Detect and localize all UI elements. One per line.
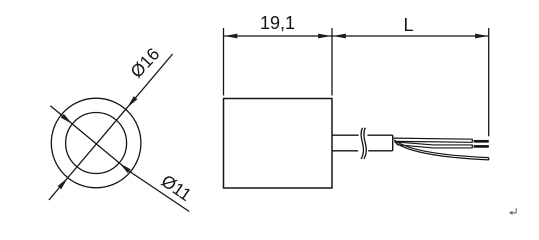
- dimension line Ø11 (diagonal upper-left to lower-right): [50, 106, 189, 212]
- arrowhead L left: [333, 34, 346, 39]
- extension line right (cable end / L): [488, 28, 490, 136]
- extension line left (body left edge): [223, 28, 225, 96]
- cable break mark (double S-curve): [361, 128, 366, 159]
- svg-text:Ø16: Ø16: [126, 44, 163, 82]
- svg-text:L: L: [403, 15, 413, 35]
- wire 2 (middle) insulation outline: [394, 142, 472, 148]
- dimension line L: [332, 35, 489, 37]
- wire 3 (bottom, angled) insulation outline: [394, 140, 489, 160]
- arrowhead Ø16 lower-left (tip on outer circle): [58, 178, 68, 190]
- extension line shared (body right edge): [331, 28, 333, 96]
- cable jacket end cap: [392, 135, 394, 151]
- cable jacket top line: [332, 134, 393, 136]
- arrowhead 19,1 left: [224, 34, 237, 39]
- arrowhead 19,1 right: [318, 34, 331, 39]
- arrowhead Ø11 lower-right (tip on inner circle): [119, 163, 131, 173]
- outer circle (front view, Ø16 body): [51, 98, 141, 188]
- arrowhead Ø11 upper-left (tip on inner circle): [61, 114, 73, 124]
- dimension line 19,1: [224, 35, 333, 37]
- inner circle (front view, Ø11 face): [66, 113, 127, 174]
- label Ø11: [158, 171, 196, 205]
- arrowhead Ø16 upper-right (tip on outer circle): [127, 96, 137, 108]
- dimension line Ø16 (diagonal lower-left to upper-right): [49, 54, 173, 200]
- wire 2 (middle) bare conductor tip: [474, 145, 489, 148]
- paragraph return mark: [509, 208, 516, 215]
- wire 1 (top) bare conductor tip: [474, 140, 489, 143]
- label 19,1: [260, 13, 295, 33]
- arrowhead L right: [475, 34, 488, 39]
- sensor body rectangle (side view): [224, 99, 333, 189]
- svg-text:19,1: 19,1: [260, 13, 295, 33]
- label L: [403, 15, 413, 35]
- label Ø16: [126, 44, 163, 82]
- cable jacket bottom line: [332, 150, 393, 152]
- svg-text:Ø11: Ø11: [158, 171, 196, 205]
- wire 1 (top) insulation outline: [394, 138, 473, 143]
